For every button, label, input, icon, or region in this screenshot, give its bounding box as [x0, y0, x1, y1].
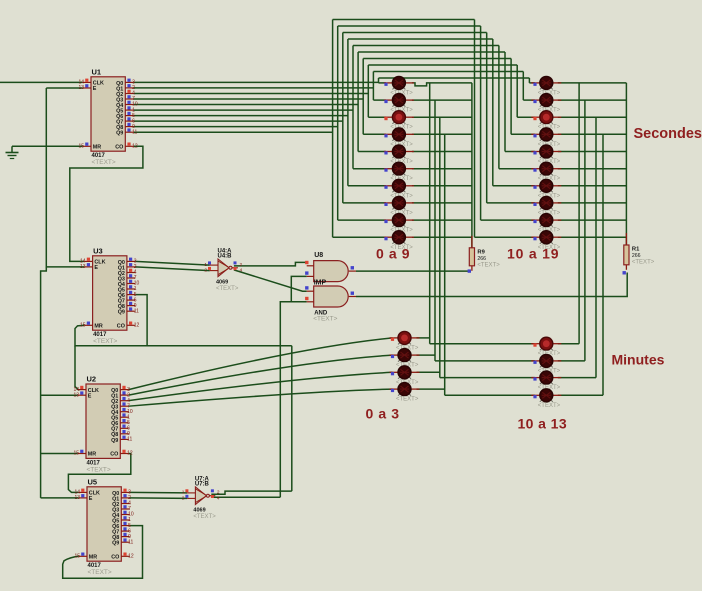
svg-text:E: E: [89, 496, 93, 502]
svg-text:<TEXT>: <TEXT>: [632, 260, 655, 266]
svg-text:266: 266: [477, 256, 486, 262]
svg-text:13: 13: [78, 85, 84, 91]
svg-text:CO: CO: [115, 145, 123, 151]
svg-text:MR: MR: [89, 555, 97, 561]
svg-text:Q9: Q9: [116, 131, 123, 137]
svg-text:CO: CO: [110, 452, 118, 458]
svg-text:4: 4: [240, 268, 243, 274]
svg-text:Q9: Q9: [112, 541, 119, 547]
svg-text:<TEXT>: <TEXT>: [93, 338, 117, 345]
svg-text:2: 2: [182, 496, 185, 502]
svg-text:13: 13: [74, 495, 80, 501]
svg-text:<TEXT>: <TEXT>: [396, 397, 419, 403]
svg-text:11: 11: [134, 308, 139, 314]
svg-text:U4:B: U4:B: [218, 254, 233, 260]
svg-text:4069: 4069: [193, 508, 205, 514]
svg-text:11: 11: [132, 129, 137, 135]
svg-text:2: 2: [217, 490, 220, 496]
svg-text:10 a 19: 10 a 19: [507, 246, 559, 262]
svg-text:13: 13: [80, 264, 86, 270]
svg-text:2: 2: [240, 262, 243, 268]
svg-text:0 a 3: 0 a 3: [366, 406, 400, 422]
svg-text:U8: U8: [314, 252, 323, 259]
svg-text:<TEXT>: <TEXT>: [87, 466, 111, 473]
svg-text:15: 15: [73, 451, 79, 457]
svg-text:Q9: Q9: [118, 310, 125, 316]
svg-text:15: 15: [78, 144, 84, 150]
svg-text:MR: MR: [93, 145, 101, 151]
svg-text:Minutes: Minutes: [612, 352, 665, 368]
svg-text:U5: U5: [88, 477, 98, 486]
svg-text:E: E: [94, 265, 98, 271]
svg-text:2: 2: [204, 268, 207, 274]
svg-text:<TEXT>: <TEXT>: [477, 262, 500, 268]
svg-text:13: 13: [73, 392, 79, 398]
svg-text:<TEXT>: <TEXT>: [313, 316, 337, 323]
svg-text:U3: U3: [93, 246, 103, 255]
svg-text:Secondes: Secondes: [634, 126, 702, 142]
svg-text:4069: 4069: [216, 280, 228, 286]
svg-text:E: E: [88, 393, 92, 399]
svg-text:0 a 9: 0 a 9: [376, 246, 410, 262]
svg-text:15: 15: [80, 323, 86, 329]
svg-text:Q9: Q9: [111, 438, 118, 444]
svg-text:MR: MR: [94, 324, 102, 330]
svg-text:MR: MR: [88, 452, 96, 458]
svg-text:12: 12: [134, 323, 140, 329]
svg-text:<TEXT>: <TEXT>: [538, 403, 561, 409]
svg-text:12: 12: [132, 144, 138, 150]
svg-text:<TEXT>: <TEXT>: [88, 569, 112, 576]
svg-text:IMP: IMP: [314, 280, 327, 287]
svg-text:U1: U1: [92, 67, 102, 76]
svg-text:U7:B: U7:B: [195, 481, 210, 487]
svg-text:12: 12: [127, 451, 133, 457]
svg-text:10 a 13: 10 a 13: [518, 416, 568, 432]
svg-text:E: E: [93, 86, 97, 92]
svg-text:R9: R9: [477, 249, 485, 255]
svg-text:15: 15: [74, 554, 80, 560]
svg-text:<TEXT>: <TEXT>: [193, 514, 216, 520]
svg-text:R1: R1: [632, 247, 640, 253]
svg-text:CO: CO: [117, 324, 125, 330]
svg-text:266: 266: [632, 253, 641, 259]
svg-text:<TEXT>: <TEXT>: [216, 286, 239, 292]
svg-text:11: 11: [128, 539, 133, 545]
svg-text:12: 12: [128, 554, 134, 560]
svg-text:1: 1: [182, 490, 185, 496]
svg-text:11: 11: [127, 437, 132, 443]
svg-text:<TEXT>: <TEXT>: [92, 159, 116, 166]
svg-text:U2: U2: [87, 375, 97, 384]
svg-text:1: 1: [204, 262, 207, 268]
svg-text:CO: CO: [111, 555, 119, 561]
svg-text:4: 4: [217, 496, 220, 502]
